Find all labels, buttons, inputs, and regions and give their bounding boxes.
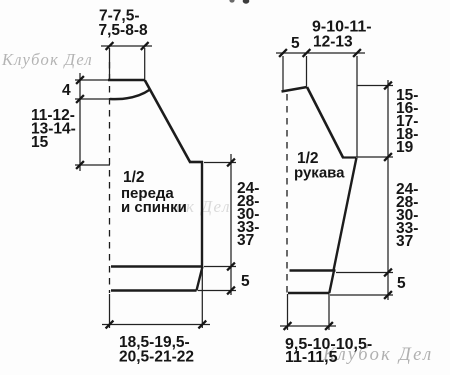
ext vertical at sleeve top-left <box>282 56 284 91</box>
hem line <box>111 289 197 292</box>
tick top dim right <box>141 42 149 50</box>
top back-neck line <box>108 79 145 82</box>
front neckline curve <box>110 90 150 100</box>
svg-text:37: 37 <box>237 232 254 249</box>
top dim extension right vertical <box>144 48 146 79</box>
tick right dim at band top <box>227 263 235 271</box>
sleeve top edge <box>282 87 308 92</box>
svg-text:1/2: 1/2 <box>123 169 145 186</box>
top dim extension left vertical <box>109 48 111 79</box>
svg-text:4: 4 <box>62 82 71 99</box>
ext vertical at sleeve cap peak <box>306 56 308 86</box>
ext: underarm to right dim <box>357 156 393 158</box>
extension: band top to right dim <box>204 266 236 268</box>
sleeve bottom dim line <box>280 325 336 327</box>
bottom ext left vertical <box>109 294 111 328</box>
svg-text:рукава: рукава <box>294 165 345 182</box>
cropped text remnant top edge <box>229 0 234 3</box>
svg-text:7,5-8-8: 7,5-8-8 <box>99 22 148 39</box>
ext: cuff hem to right dim <box>330 294 393 296</box>
tick bottom dim left <box>106 321 114 329</box>
tick sleeve top dim right <box>353 49 361 57</box>
tick right dim at step <box>227 159 235 167</box>
tick sleeve bottom dim right <box>325 322 333 330</box>
tick top dim left <box>106 42 114 50</box>
extension: armhole level to left dim <box>75 164 110 166</box>
center fold dashed line (left piece) <box>109 62 111 293</box>
extension: step to right dim <box>204 162 236 164</box>
right dim vertical (left piece) <box>230 154 232 295</box>
bottom ext right vertical <box>201 268 203 328</box>
side edge vertical <box>201 161 203 267</box>
svg-text:5: 5 <box>291 35 300 52</box>
ext: cap top to right dim <box>357 85 393 87</box>
tick sleeve right dim at cap top <box>384 82 392 90</box>
cuff hem line <box>288 292 330 295</box>
tick left dim at neck bottom <box>76 95 84 103</box>
tick bottom dim right <box>198 321 206 329</box>
tick right dim at hem <box>227 287 235 295</box>
ext vertical at sleeve top-right / underarm <box>356 56 358 157</box>
svg-text:и спинки: и спинки <box>121 199 187 216</box>
svg-text:5: 5 <box>397 275 406 292</box>
waistband slant <box>197 267 203 291</box>
extension: neck bottom to left dim <box>75 98 110 100</box>
shoulder slant <box>145 80 190 162</box>
extension: hem to right dim <box>198 290 236 292</box>
svg-text:5: 5 <box>241 273 250 290</box>
tick sleeve bottom dim left <box>284 322 292 330</box>
bottom dim line (left piece) <box>102 324 210 326</box>
underarm short line <box>342 156 357 158</box>
tick sleeve right dim at underarm <box>384 153 392 161</box>
cuff band top line <box>290 269 336 272</box>
cuff band slant <box>329 271 334 294</box>
top dim line <box>101 45 152 47</box>
sleeve right dim vertical <box>387 80 389 300</box>
svg-text:12-13: 12-13 <box>313 33 353 50</box>
sleeve seam slant <box>334 158 357 271</box>
svg-text:19: 19 <box>396 139 414 156</box>
svg-text:37: 37 <box>396 233 413 250</box>
armhole step <box>189 161 203 164</box>
sleeve bottom ext right vertical <box>328 294 330 330</box>
left dim vertical line <box>79 73 81 171</box>
tick sleeve right dim at band top <box>384 269 392 277</box>
svg-text:20,5-21-22: 20,5-21-22 <box>119 349 194 366</box>
tick left dim at neck top <box>76 76 84 84</box>
svg-text:15: 15 <box>31 134 49 151</box>
svg-text:Клубок Дел: Клубок Дел <box>1 50 93 69</box>
extension: top line to left dim <box>75 79 109 81</box>
ext: band top to right dim <box>336 272 393 274</box>
center fold dashed line (sleeve) <box>286 94 288 293</box>
sleeve cap slant <box>307 87 343 158</box>
tick sleeve top dim mid <box>303 49 311 57</box>
tick left dim at armhole <box>76 161 84 169</box>
sleeve bottom ext left vertical <box>287 294 289 330</box>
tick sleeve right dim at cuff hem <box>384 291 392 299</box>
sleeve top dim line <box>276 52 365 54</box>
tick sleeve top dim left <box>279 49 287 57</box>
waistband top line <box>111 265 203 268</box>
svg-text:11-11,5: 11-11,5 <box>285 349 338 366</box>
